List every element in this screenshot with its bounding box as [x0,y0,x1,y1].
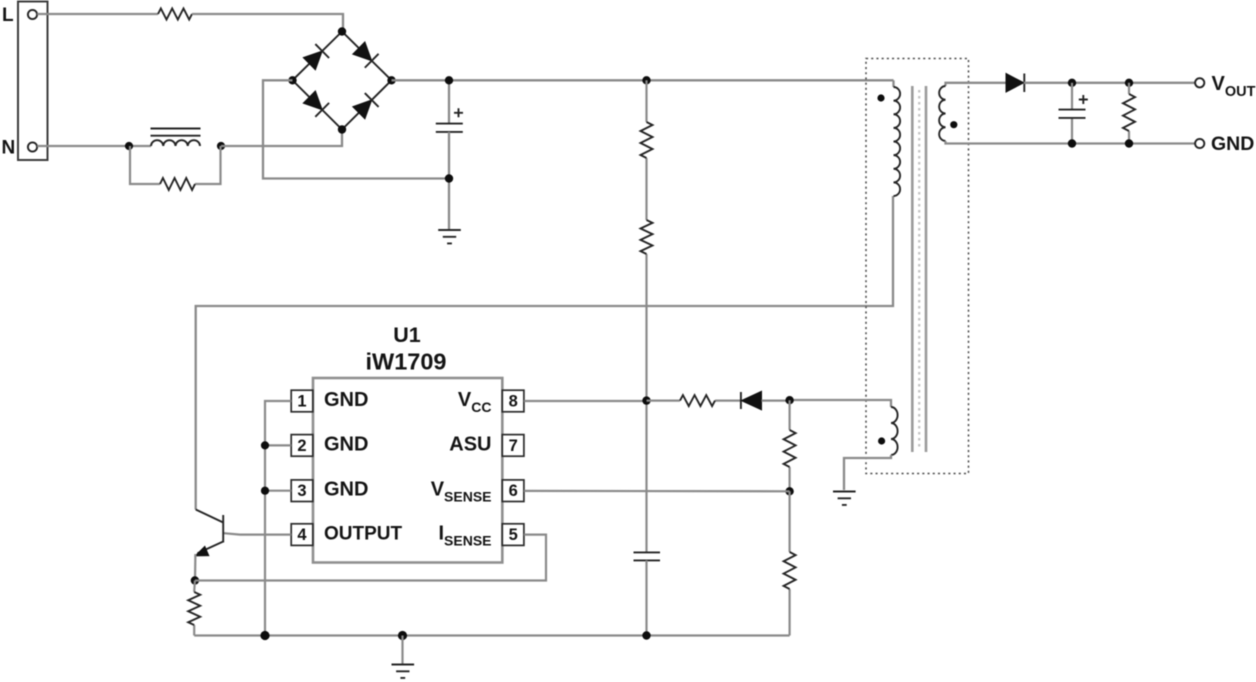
feedback resistor R4 upper [784,430,796,467]
transformer core bars [912,86,926,452]
svg-text:VOUT: VOUT [1212,73,1256,100]
transistor Q1 collector lead [196,510,224,523]
startup resistor R1 [641,122,653,158]
sense resistor R6 leads [193,581,196,636]
secondary bottom wire to output return [946,141,1200,144]
wire pin4 OUTPUT to transistor base [224,533,291,534]
node rail cap C3 [642,631,650,639]
terminal L pin circle [28,10,37,19]
sense resistor R6 [188,592,200,625]
wire D6 to aux node [762,400,790,402]
node bridge left [288,76,296,84]
wire pin8 VCC to supply node [524,400,647,402]
bridge diode D4 (bottom-right) [353,100,372,119]
feedback divider lower leads [788,491,790,635]
output capacitor C2 leads [1071,83,1073,144]
bridge rectifier BR1 diamond wires [293,32,392,130]
wire choke to bridge bottom node [221,130,342,146]
bridge diode D1 (left-top) [303,51,322,70]
svg-text:7: 7 [509,437,518,455]
VCC resistor R3 [680,395,715,406]
wire bridge right node to primary (HV rail) [392,79,894,81]
node load resistor bottom [1125,139,1133,147]
svg-text:1: 1 [297,392,306,410]
svg-text:GND: GND [324,433,368,455]
node HV rail to startup divider [642,76,650,84]
terminal N pin circle [28,142,37,151]
svg-text:GND: GND [324,479,368,501]
node gnd bus pin2 [261,441,269,449]
svg-text:iW1709: iW1709 [366,349,447,375]
U1 pin 4 box [291,524,313,546]
wire pin2 to gnd bus [265,444,291,446]
transformer shield dotted line [918,90,920,448]
wire pin3 to gnd bus [265,490,291,492]
output rectifier diode D5 [1006,74,1024,93]
bulk capacitor C1 lead bottom [448,132,450,230]
node VSENSE tap [785,487,793,495]
bridge diode D2 (top-right) [353,42,372,61]
load resistor R5 [1123,94,1135,131]
node rail main ground [398,631,407,640]
current sense wire to pin5 [195,535,546,581]
wire to VCC resistor [647,400,741,402]
svg-text:GND: GND [324,389,368,411]
U1 pin 8 box [502,390,524,412]
damping resistor RD [160,178,195,190]
op IC U1 box [313,378,502,563]
terminal block J1 [18,2,48,161]
wire D5 to VOUT terminal [1024,82,1195,84]
wire pin1 to gnd bus [265,401,291,636]
auxiliary phase dot [878,437,885,444]
transistor Q1 base bar [222,515,224,543]
bulk capacitor C1 plates [436,124,463,132]
bridge diode D3 (left-bottom) [303,91,322,110]
feedback resistor R7 lower [784,552,796,589]
U1 pin 1 box [291,390,313,412]
bulk capacitor C1 lead top [448,80,450,123]
svg-text:L: L [2,5,14,26]
svg-text:N: N [2,138,16,159]
wire startup divider vertical [645,80,647,552]
node choke right junction [217,142,225,150]
svg-text:6: 6 [509,482,518,500]
feedback divider upper leads [788,400,790,491]
U1 pin 7 box [502,435,524,457]
ground main [392,665,415,678]
node aux winding / feedback divider [785,396,793,404]
terminal VOUT circle [1195,78,1204,87]
decoupling capacitor C3 plates [634,552,661,560]
node rail gnd-bus [260,631,269,640]
secondary winding [939,86,945,141]
C2 polarity plus [1079,95,1088,104]
fuse resistor RF [158,9,192,20]
node gnd bus pin3 [261,487,269,495]
node load resistor top [1125,79,1133,87]
secondary phase dot [950,121,957,128]
svg-text:ASU: ASU [449,433,491,455]
U1 pin 5 box [502,524,524,546]
wire primary bottom to transistor collector [196,196,893,510]
wire bridge left node to DC return rail [263,80,449,178]
terminal GND circle [1195,139,1204,148]
U1 pin 2 box [291,435,313,457]
svg-text:OUTPUT: OUTPUT [324,524,403,545]
ground primary DC [438,230,461,243]
damping resistor RD parallel loop wires [130,146,221,184]
transformer T1 dashed outline [866,59,969,474]
node bridge bottom [338,125,346,133]
svg-text:2: 2 [297,437,306,455]
transistor Q1 emitter arrow [195,546,209,555]
line filter inductor LF winding [151,140,200,146]
node N-choke left junction [125,142,133,150]
svg-text:GND: GND [1211,133,1254,155]
main ground stub [401,636,403,665]
node emitter / current sense [191,576,199,584]
VCC diode D6 cathode bar [740,392,742,409]
wire L terminal to fuse resistor [37,13,158,15]
node VCC line / startup divider [642,396,650,404]
wire N terminal to choke [37,145,151,147]
load resistor R5 leads [1128,83,1130,144]
node output cap top [1068,79,1076,87]
wire emitter down to sense node [194,554,197,581]
decoupling capacitor C3 lower lead [645,560,647,635]
primary winding [894,87,901,196]
transistor Q1 emitter lead [198,542,224,554]
D5 cathode bar [1023,74,1025,93]
node bridge top [338,27,346,35]
svg-text:4: 4 [297,526,307,544]
ground auxiliary [833,492,856,505]
U1 pin 3 box [291,480,313,502]
svg-text:U1: U1 [393,323,421,347]
primary phase dot [877,94,884,101]
wire fuse to bridge top node [192,14,343,32]
node bridge right [387,76,395,84]
primary winding entry wire [892,80,894,87]
svg-text:8: 8 [509,392,518,410]
node output cap bottom [1068,139,1076,147]
auxiliary winding [891,407,898,455]
node HV rail / C1 [445,76,453,84]
secondary winding exit top wire [946,83,1007,86]
primary ground rail [194,634,789,636]
startup resistor R2 [641,220,653,254]
auxiliary bottom wire [844,455,891,490]
wire VSENSE tap to pin6 [524,490,790,493]
U1 pin 6 box [502,480,524,502]
C1 polarity plus [454,108,463,117]
line filter inductor LF core bars [151,129,201,136]
auxiliary winding entry wire [790,400,891,407]
svg-text:5: 5 [509,526,518,544]
output capacitor C2 plates [1059,110,1086,118]
svg-text:3: 3 [297,482,306,500]
VCC diode D6 [741,391,761,410]
node C1 bottom / return rail [445,174,453,182]
